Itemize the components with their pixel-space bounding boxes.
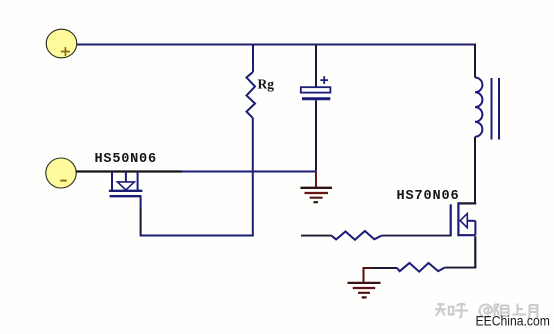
resistor R2 [397, 263, 445, 272]
svg-text:HS70N06: HS70N06 [397, 189, 460, 204]
wire transformer to Q2 drain [474, 137, 476, 204]
ground 1 [301, 188, 333, 202]
battery negative terminal [46, 158, 76, 188]
transformer core [492, 78, 500, 140]
resistor R1 [332, 231, 382, 240]
svg-text:EEChina.com: EEChina.com [476, 313, 550, 329]
wire ground 2 riser and R2 left lead [363, 268, 397, 282]
wire top rail from + to transformer [77, 44, 475, 46]
resistor Rg [247, 45, 256, 236]
watermark zhihu handle (approximated glyph strokes) [435, 304, 537, 320]
wire transformer drain vertical upper [474, 44, 476, 78]
transistor Q1 HS50N06 [109, 172, 142, 197]
wire Q2 source down [474, 236, 476, 268]
capacitor C1 bottom plate [302, 97, 330, 100]
wire Q1 to ground junction [112, 170, 182, 172]
battery positive terminal [46, 29, 77, 58]
svg-text:HS50N06: HS50N06 [95, 152, 157, 167]
capacitor C1 plus sign [320, 76, 328, 84]
wire R1 to Q2 gate [381, 235, 450, 237]
transistor Q2 HS70N06 [451, 202, 477, 236]
svg-text:Rg: Rg [258, 77, 275, 92]
capacitor C1 top plate [301, 87, 331, 92]
ground 2 [348, 283, 381, 298]
wire resistor R1 left lead [301, 235, 332, 237]
capacitor C1 positive lead [315, 45, 317, 88]
wire Q1 gate to Rg bottom [140, 196, 142, 208]
wire R2 to Q2 source [445, 267, 477, 269]
inductor L1 primary coil [475, 78, 482, 137]
capacitor C1 bottom lead [315, 100, 317, 170]
wire negative terminal to Q1 [76, 170, 112, 172]
ground 1 stem [315, 172, 317, 188]
